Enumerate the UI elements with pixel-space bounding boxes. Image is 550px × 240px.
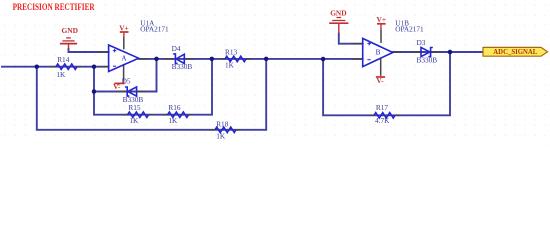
svg-text:1K: 1K <box>56 70 66 79</box>
svg-text:R18: R18 <box>216 119 229 128</box>
svg-text:A: A <box>121 55 127 63</box>
svg-text:R15: R15 <box>128 103 141 112</box>
svg-text:D5: D5 <box>122 77 131 86</box>
svg-text:B: B <box>376 48 381 56</box>
svg-text:PRECISION RECTIFIER: PRECISION RECTIFIER <box>13 2 95 12</box>
svg-text:OPA2171: OPA2171 <box>395 24 424 33</box>
svg-text:1K: 1K <box>129 116 139 125</box>
svg-text:ADC_SIGNAL: ADC_SIGNAL <box>493 48 537 56</box>
svg-text:B330B: B330B <box>172 62 193 71</box>
svg-text:D3: D3 <box>417 38 426 47</box>
svg-text:V+: V+ <box>377 15 387 24</box>
svg-text:B330B: B330B <box>123 95 144 104</box>
svg-text:R14: R14 <box>57 55 70 64</box>
svg-text:1K: 1K <box>216 132 226 141</box>
svg-text:GND: GND <box>62 26 78 35</box>
svg-text:4.7K: 4.7K <box>375 116 390 125</box>
svg-text:R17: R17 <box>376 103 389 112</box>
svg-text:1K: 1K <box>168 116 178 125</box>
svg-text:R13: R13 <box>225 47 238 56</box>
svg-text:R16: R16 <box>168 103 181 112</box>
svg-text:V+: V+ <box>119 23 129 32</box>
svg-text:B330B: B330B <box>417 56 438 65</box>
svg-text:V-: V- <box>113 82 121 91</box>
svg-text:1K: 1K <box>225 60 235 69</box>
svg-text:OPA2171: OPA2171 <box>140 24 169 33</box>
svg-text:GND: GND <box>330 8 346 17</box>
svg-text:D4: D4 <box>172 44 181 53</box>
svg-text:V-: V- <box>376 76 384 85</box>
